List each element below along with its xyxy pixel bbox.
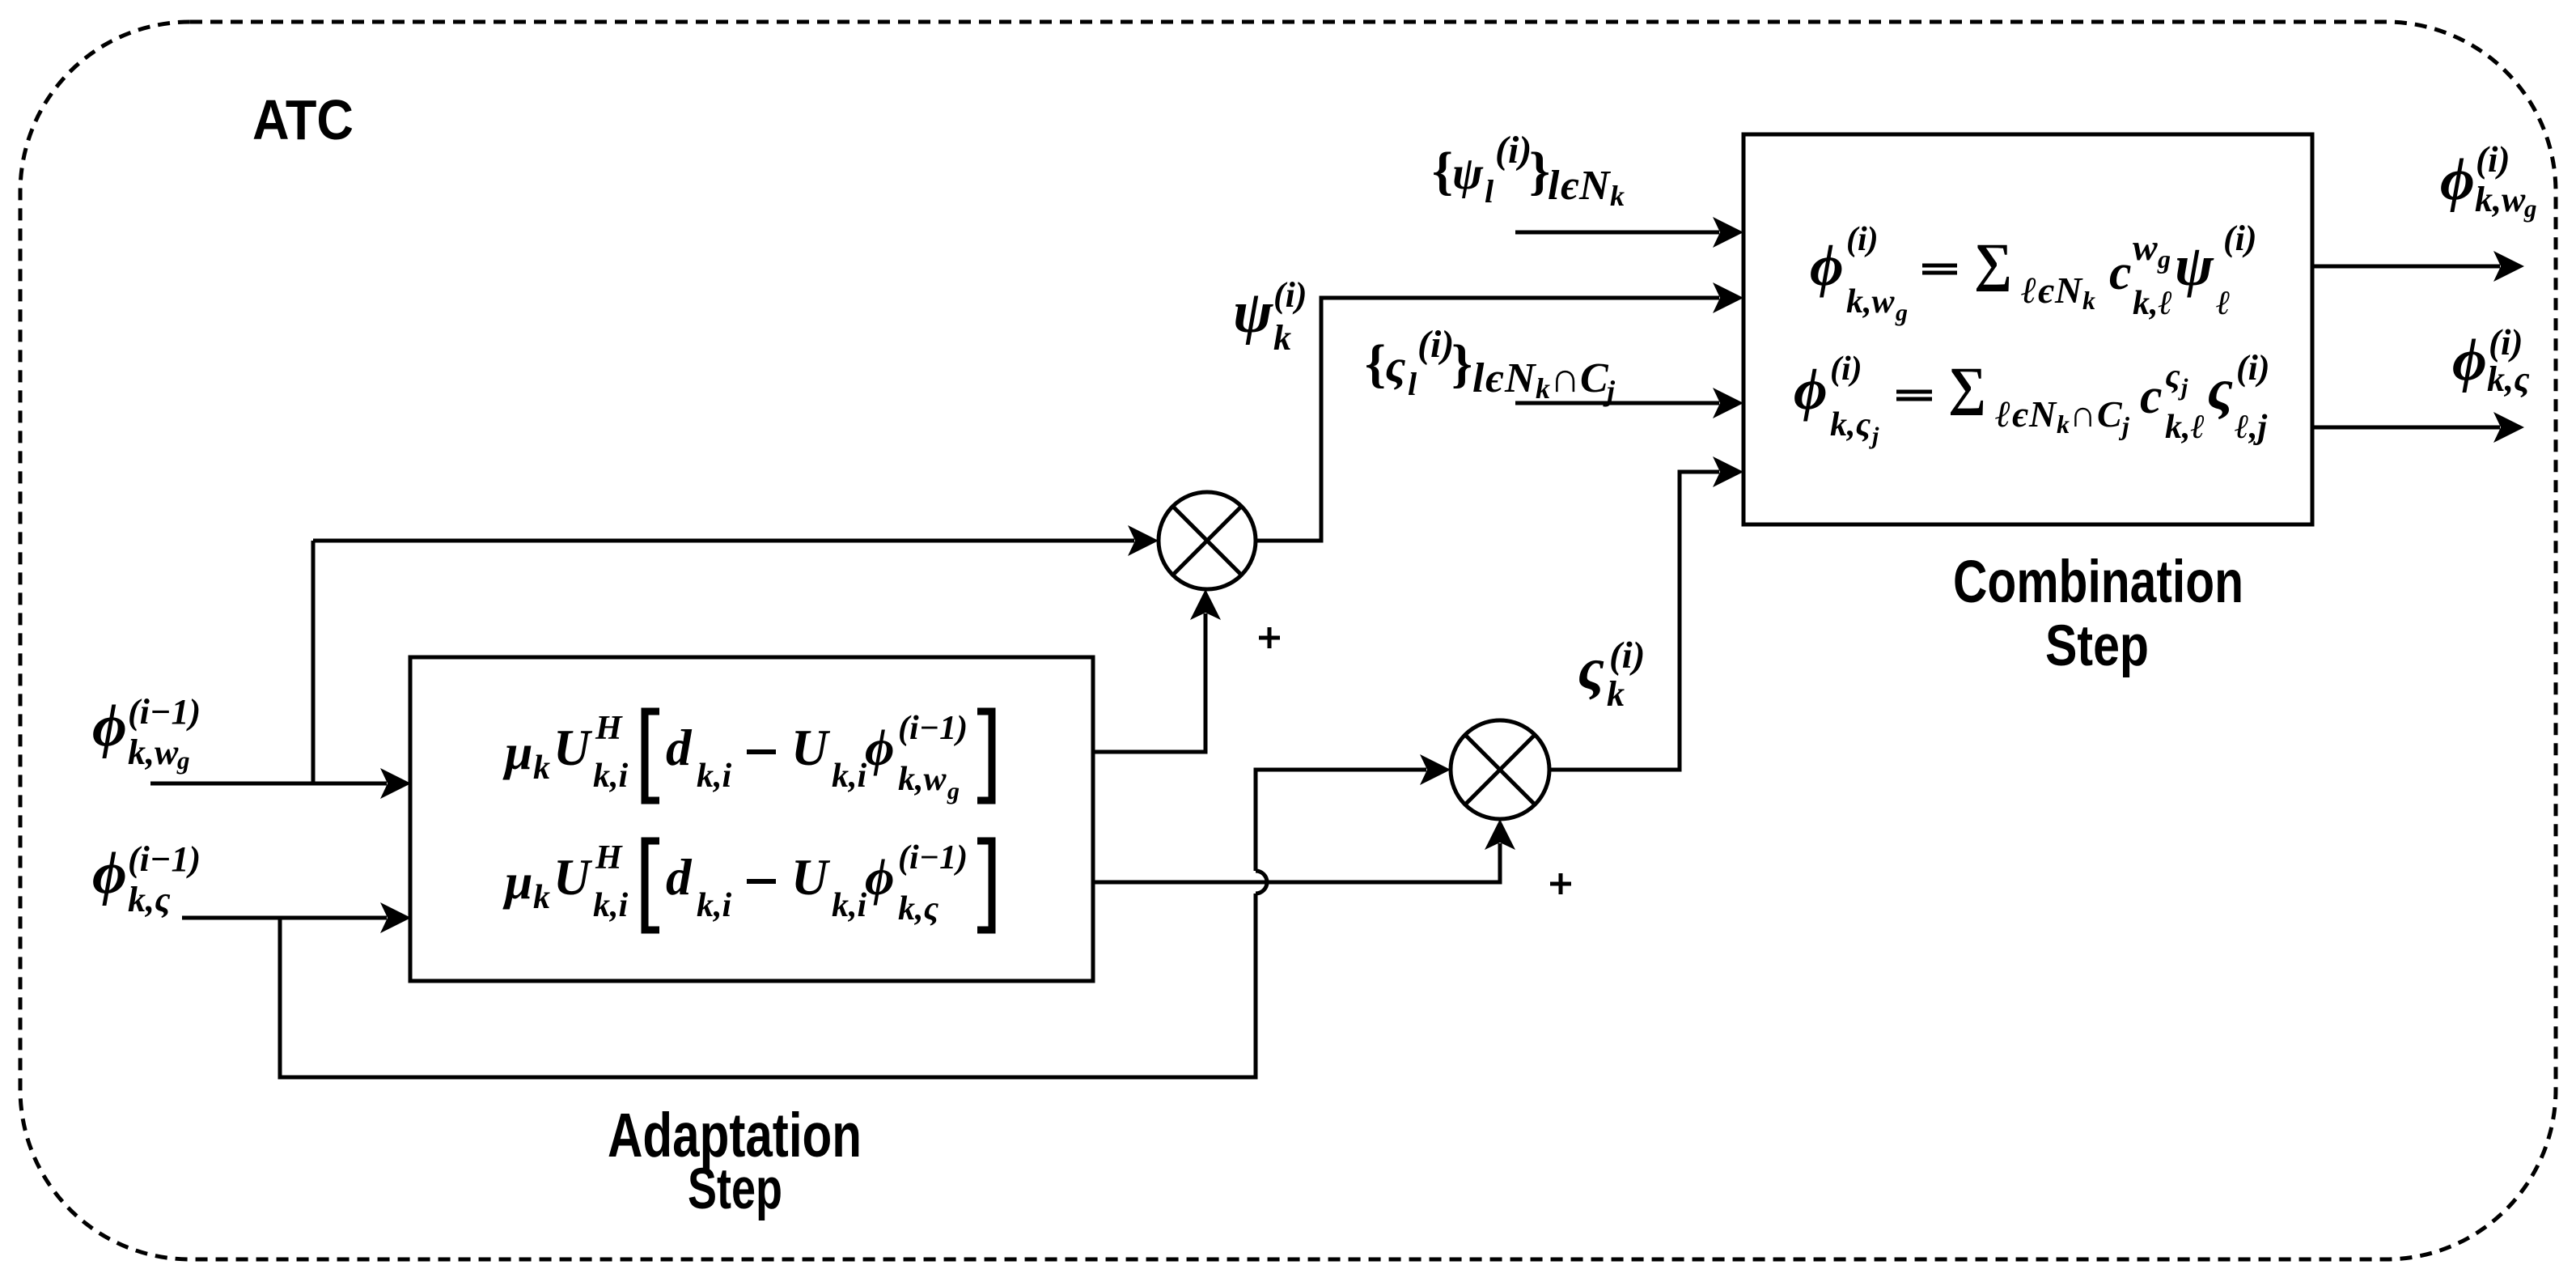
svg-text:ϕ: ϕ <box>2452 327 2487 393</box>
wire phi_k_wg input <box>150 768 411 799</box>
combination equation 2 <box>1794 348 2270 449</box>
svg-text:ℓ: ℓ <box>2021 270 2037 311</box>
svg-text:ς: ς <box>1578 636 1604 703</box>
label sigma_k^(i) <box>1578 635 1645 714</box>
svg-text:l: l <box>1548 163 1560 209</box>
multiplier M1 <box>1159 492 1256 589</box>
wire set sigma input to combination input 3 <box>1515 388 1743 418</box>
wire hop over adaptation output <box>1256 871 1267 894</box>
svg-text:k,ℓ: k,ℓ <box>2133 285 2172 322</box>
svg-text:ϕ: ϕ <box>2440 146 2475 213</box>
svg-text:(i): (i) <box>2236 348 2270 388</box>
svg-text:l: l <box>1408 366 1417 402</box>
svg-text:k,ς: k,ς <box>1830 406 1871 444</box>
svg-text:(i): (i) <box>2489 322 2523 363</box>
svg-text:(i): (i) <box>2223 219 2257 258</box>
svg-text:k,i: k,i <box>593 758 629 795</box>
plus sign at M2 <box>1550 873 1571 894</box>
svg-text:U: U <box>553 849 593 906</box>
svg-text:∩: ∩ <box>1550 355 1580 401</box>
svg-text:{: { <box>1432 142 1453 201</box>
svg-text:k,ς: k,ς <box>2487 359 2530 399</box>
svg-text:(i−1): (i−1) <box>128 692 201 732</box>
combination equation 1 <box>1810 219 2257 326</box>
svg-text:k: k <box>2082 286 2095 315</box>
svg-text:ψ: ψ <box>1233 279 1273 346</box>
svg-text:є: є <box>2012 393 2028 435</box>
svg-text:∑: ∑ <box>1974 233 2012 292</box>
wire M1 output to combination input 2 <box>1256 282 1743 541</box>
svg-text:N: N <box>1504 355 1537 401</box>
multiplier M2 <box>1451 720 1549 819</box>
svg-text:Combination: Combination <box>1953 548 2243 615</box>
svg-text:є: є <box>2038 270 2054 311</box>
wire M2 output to combination input 4 <box>1549 456 1743 770</box>
svg-text:N: N <box>1578 163 1612 209</box>
svg-text:g: g <box>2523 194 2537 223</box>
svg-text:(i): (i) <box>1830 350 1862 388</box>
svg-text:ϕ: ϕ <box>1794 357 1828 422</box>
svg-text:(i): (i) <box>1495 129 1532 172</box>
svg-text:k,i: k,i <box>832 887 867 924</box>
svg-text:g: g <box>2157 244 2171 274</box>
label phi_k_s^(i-1) <box>92 839 201 919</box>
svg-text:є: є <box>1485 355 1504 401</box>
svg-text:c: c <box>2140 369 2163 424</box>
svg-text:c: c <box>2109 245 2132 300</box>
svg-text:k: k <box>1273 318 1291 358</box>
svg-text:k,w: k,w <box>898 761 947 798</box>
svg-text:k,i: k,i <box>697 887 732 924</box>
svg-text:k,i: k,i <box>593 887 629 924</box>
svg-text:ς: ς <box>2165 358 2180 395</box>
svg-text:k: k <box>1610 180 1625 212</box>
wire set psi input to combination input 1 <box>1515 217 1743 248</box>
svg-text:l: l <box>1485 173 1494 210</box>
svg-text:k: k <box>533 879 550 916</box>
svg-text:k,w: k,w <box>1846 283 1896 320</box>
label phi_k_s^(i) output <box>2452 322 2530 399</box>
svg-text:ϕ: ϕ <box>865 720 894 776</box>
svg-text:ψ: ψ <box>1452 148 1484 199</box>
svg-text:k,ς: k,ς <box>128 880 171 919</box>
svg-text:g: g <box>176 746 190 775</box>
wire to multiplier M2 left <box>1256 754 1451 871</box>
svg-text:ϕ: ϕ <box>92 840 127 906</box>
svg-text:(i): (i) <box>2476 139 2510 180</box>
combination step box <box>1743 134 2312 524</box>
svg-text:(i−1): (i−1) <box>898 839 968 877</box>
adaptation equation 2 <box>502 839 992 930</box>
wire to multiplier M1 left <box>313 525 1159 556</box>
svg-text:U: U <box>553 720 593 776</box>
svg-text:k,i: k,i <box>832 758 867 795</box>
svg-text:ℓ: ℓ <box>1995 393 2011 435</box>
svg-text:g: g <box>947 778 960 804</box>
svg-text:k,w: k,w <box>2475 180 2526 219</box>
svg-text:μ: μ <box>502 725 532 780</box>
svg-text:d: d <box>666 720 693 776</box>
plus sign at M1 <box>1259 627 1280 648</box>
svg-text:∩: ∩ <box>2070 393 2096 435</box>
svg-text:ς: ς <box>2207 357 2233 422</box>
wire branch up from phi_k_wg input <box>311 541 316 783</box>
svg-text:l: l <box>1472 355 1485 401</box>
svg-text:}: } <box>1451 334 1472 393</box>
svg-text:{: { <box>1365 334 1386 393</box>
svg-text:k,ς: k,ς <box>898 890 939 928</box>
svg-text:d: d <box>666 849 693 906</box>
svg-text:k: k <box>533 749 550 787</box>
wire combination output phi_k_s <box>2312 412 2524 443</box>
adaptation step box <box>410 657 1093 981</box>
svg-text:(i): (i) <box>1417 323 1454 366</box>
svg-text:ℓ,j: ℓ,j <box>2235 409 2267 446</box>
svg-text:k,ℓ: k,ℓ <box>2165 409 2205 446</box>
label phi_k_wg^(i) output <box>2440 139 2537 223</box>
svg-text:ATC: ATC <box>252 88 354 151</box>
svg-text:g: g <box>1895 299 1908 326</box>
svg-text:ς: ς <box>1385 341 1405 392</box>
svg-text:∑: ∑ <box>1948 357 1986 416</box>
svg-text:(i−1): (i−1) <box>898 710 968 747</box>
svg-text:(i−1): (i−1) <box>128 839 201 879</box>
label set sigma_l^(i), l in N_k cap C_j <box>1365 323 1616 407</box>
svg-text:k: k <box>1607 674 1625 714</box>
svg-text:є: є <box>1561 163 1579 209</box>
svg-text:k,i: k,i <box>697 758 732 795</box>
wire combination output phi_k_wg <box>2312 251 2524 282</box>
svg-text:C: C <box>1580 355 1609 401</box>
svg-text:ϕ: ϕ <box>1810 233 1844 298</box>
svg-text:U: U <box>791 849 831 906</box>
svg-text:ϕ: ϕ <box>92 693 127 759</box>
wire feedback down-right from phi_k_s input <box>280 894 1256 1077</box>
wire adaptation eq1 output to M1 bottom <box>1093 589 1221 752</box>
svg-text:Step: Step <box>2045 614 2149 678</box>
svg-text:k,w: k,w <box>128 732 179 772</box>
svg-text:H: H <box>595 710 623 747</box>
adaptation equation 1 <box>502 710 992 804</box>
svg-text:μ: μ <box>502 855 532 910</box>
label phi_k_wg^(i-1) <box>92 692 201 775</box>
svg-text:(i): (i) <box>1846 221 1879 258</box>
wire phi_k_s input <box>182 902 411 933</box>
svg-text:N: N <box>2028 393 2057 435</box>
svg-text:(i): (i) <box>1273 275 1307 315</box>
svg-text:U: U <box>791 720 831 776</box>
svg-text:Step: Step <box>688 1157 782 1221</box>
svg-text:k: k <box>2057 410 2070 439</box>
svg-text:ϕ: ϕ <box>865 849 894 906</box>
svg-text:k: k <box>1536 372 1550 405</box>
svg-text:C: C <box>2097 393 2123 435</box>
svg-text:N: N <box>2054 270 2083 311</box>
svg-text:ψ: ψ <box>2175 233 2214 298</box>
svg-text:ℓ: ℓ <box>2216 285 2231 322</box>
wire adaptation eq2 output to M2 bottom <box>1093 819 1515 882</box>
svg-text:(i): (i) <box>1609 635 1645 677</box>
label set psi_l^(i), l in N_k <box>1432 129 1625 212</box>
label psi_k^(i) <box>1233 275 1307 358</box>
svg-text:w: w <box>2133 227 2158 268</box>
svg-text:H: H <box>595 839 623 877</box>
